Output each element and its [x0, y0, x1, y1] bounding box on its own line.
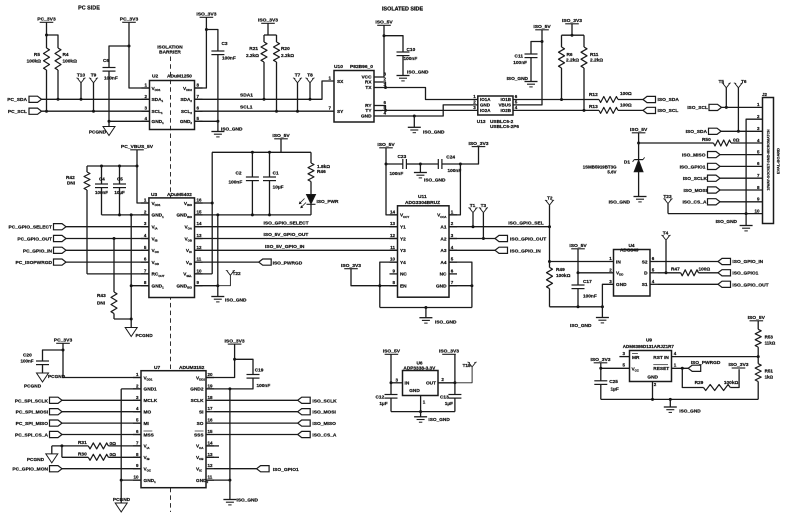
svg-text:ISO_GPIO1: ISO_GPIO1 [680, 164, 706, 170]
wire PC_SPI_CS_A wire [62, 434, 141, 436]
node T3 junction [482, 237, 485, 240]
wire U3 pin10 VSEL tie [195, 273, 213, 275]
svg-text:T8: T8 [307, 73, 313, 79]
capacitor C1 [263, 176, 276, 178]
svg-text:IO2B: IO2B [500, 108, 511, 113]
svg-text:PC_SPI_MOSI: PC_SPI_MOSI [16, 410, 49, 416]
svg-text:U3: U3 [151, 192, 158, 198]
wire bottom rail GND_ISO [195, 214, 312, 216]
U6 GND pin1 stem [420, 396, 422, 412]
U7 pins [133, 377, 141, 379]
node C1 rail junction [268, 151, 271, 154]
resistor R51 [757, 357, 759, 364]
svg-text:ADUM3152: ADUM3152 [179, 365, 205, 371]
wire C17 top lead [577, 273, 579, 285]
wire ISO_3V3 stem (U11) [460, 147, 478, 164]
svg-text:ADM6386D131ARJZ1R7: ADM6386D131ARJZ1R7 [623, 344, 675, 349]
svg-text:ISO_MOSI: ISO_MOSI [684, 188, 708, 194]
svg-text:ISO_GPIO1: ISO_GPIO1 [732, 271, 758, 277]
svg-text:U11: U11 [418, 194, 427, 200]
svg-text:MO: MO [144, 410, 152, 416]
node GND2 junction [228, 387, 231, 390]
wire A2 wire [449, 238, 495, 240]
resistor R21 [263, 35, 265, 42]
svg-text:ISO_3V3: ISO_3V3 [225, 338, 245, 344]
svg-text:PC_SDA: PC_SDA [7, 97, 27, 103]
node T4 junction [665, 271, 668, 274]
svg-text:1kΩ: 1kΩ [765, 375, 774, 380]
svg-text:GND: GND [409, 388, 420, 394]
op-amp U7 ADUM3152 box [141, 371, 206, 488]
svg-text:ISO_PWR: ISO_PWR [317, 199, 339, 205]
svg-text:C12: C12 [376, 395, 385, 401]
node C5/GND1 junction [118, 213, 121, 216]
svg-text:ISO_SCL: ISO_SCL [658, 108, 679, 114]
wire PC_SPI_MISO wire [62, 422, 141, 424]
node R53/R51 junction [757, 355, 760, 358]
wire RX tie [382, 82, 386, 88]
svg-text:GND: GND [436, 284, 447, 290]
svg-text:DNI: DNI [67, 181, 75, 187]
svg-text:ISO_GPIO1: ISO_GPIO1 [273, 467, 299, 473]
svg-text:GND: GND [616, 282, 627, 288]
U9 MR pin3 [619, 356, 629, 358]
wire ISO_MISO wire [214, 422, 298, 424]
wire ISO_MOSI wire [214, 411, 298, 413]
wire C11 top lead [531, 42, 542, 55]
svg-text:PC_GPIO_IN: PC_GPIO_IN [23, 248, 53, 254]
svg-text:SCL1: SCL1 [240, 105, 253, 111]
node U6 OUT junction [453, 381, 456, 384]
svg-text:ISO_GND: ISO_GND [570, 323, 592, 329]
node U4 gnd junction [601, 305, 604, 308]
wire IO1B to R12 [513, 99, 599, 101]
node T6 junction [737, 130, 740, 133]
svg-text:PC_GPIO_SELECT: PC_GPIO_SELECT [9, 225, 53, 231]
wire GND2 vertical [229, 389, 231, 480]
svg-text:U10: U10 [334, 64, 343, 70]
wire ISO_5V stem (U11) [386, 148, 398, 215]
svg-text:C11: C11 [515, 54, 524, 60]
ground PCGND (C6) [103, 127, 115, 136]
svg-text:A2: A2 [440, 236, 446, 242]
wire C19 bottom lead [206, 378, 253, 389]
svg-text:MI: MI [144, 421, 149, 427]
wire C12 bottom lead [390, 398, 392, 412]
svg-text:U2: U2 [152, 74, 159, 80]
ground ISO_GND (C11) [525, 81, 538, 83]
wire C25 top lead [600, 368, 602, 381]
wire ISO_5V stem (U4) [577, 249, 579, 273]
connector ISO_GPIO1 (U4) [718, 270, 731, 276]
svg-text:ISO_3V3: ISO_3V3 [590, 357, 610, 363]
wire ISO_3V3 stem (U6) [454, 354, 456, 383]
wire S2 wire [658, 261, 718, 263]
connector ISO_PWRGD (U9) [688, 365, 701, 371]
capacitor C5 [113, 183, 126, 185]
svg-text:16: 16 [208, 418, 214, 423]
wire pullup rail stem [267, 23, 269, 35]
svg-text:C23: C23 [398, 154, 407, 160]
node U11 gnd stem junction [424, 306, 427, 309]
connector PC_SCL [29, 108, 42, 114]
node pin8 corner [130, 284, 133, 287]
connector ISO_MOSI [298, 409, 311, 415]
svg-text:Y3: Y3 [400, 248, 406, 254]
svg-text:ISO_5V: ISO_5V [533, 24, 551, 30]
svg-text:10: 10 [197, 268, 203, 273]
svg-text:R42: R42 [66, 175, 75, 181]
wire R30 to pin8 [108, 456, 141, 458]
ground ISO_GND (U9) [664, 406, 677, 408]
capacitor C4 [95, 183, 108, 185]
node C6/GND1 junction [108, 120, 111, 123]
regulator U6 ADP3338 box [403, 371, 439, 396]
wire SEL to U4 IN [550, 261, 614, 263]
node U9 gnd junction2 [669, 398, 672, 401]
svg-text:13: 13 [197, 233, 203, 238]
wire U7 pin10 GND1 [121, 479, 141, 481]
svg-text:PC_3V3: PC_3V3 [37, 17, 56, 23]
node R4/SDA junction [57, 98, 60, 101]
wire PC_GPIO_IN wire [66, 249, 149, 251]
svg-text:GND1: GND1 [144, 387, 158, 393]
node gnd tie junction [216, 213, 219, 216]
svg-text:ISO_GND: ISO_GND [428, 417, 450, 423]
svg-text:11: 11 [390, 245, 395, 250]
wire PC_GPIO_SELECT wire [66, 226, 149, 228]
wire top rail [212, 151, 311, 153]
svg-text:100kΩ: 100kΩ [27, 59, 42, 65]
svg-text:ISO_GND: ISO_GND [679, 409, 701, 415]
svg-text:ISO_5V: ISO_5V [748, 315, 766, 321]
wire VCCA wire [449, 164, 460, 215]
svg-text:MSS: MSS [144, 432, 154, 438]
wire R4 top jog [47, 35, 59, 48]
node C3 branch junction [205, 28, 208, 31]
svg-text:100Ω: 100Ω [620, 91, 632, 97]
svg-text:ISO_GND: ISO_GND [435, 320, 457, 326]
wire U9 bottom rail [601, 398, 758, 400]
wire SCL1 U2 pin6 to U10 SY [195, 110, 335, 112]
wire C17 bottom lead [577, 289, 579, 307]
wire ISO_5V stem (D1) [638, 133, 640, 143]
svg-text:NC: NC [400, 272, 407, 278]
svg-text:D: D [644, 271, 648, 277]
node C20 junction [62, 349, 65, 352]
svg-text:100nF: 100nF [448, 168, 462, 174]
svg-text:SCLK: SCLK [191, 398, 205, 404]
svg-text:20: 20 [208, 372, 214, 377]
wire C5 bottom lead [119, 188, 121, 215]
svg-text:ISO_3V3: ISO_3V3 [728, 362, 748, 368]
svg-text:ISO_CS_A: ISO_CS_A [682, 200, 707, 206]
node C10 branch junction [383, 34, 386, 37]
node C23/C24 gnd junction [419, 163, 422, 166]
svg-text:ISO_GND: ISO_GND [225, 298, 247, 304]
node T2 junction [548, 225, 551, 228]
node R31 gnd junction [60, 444, 63, 447]
wire U7 pin2 GND1 [121, 388, 141, 390]
connector ISO_GPIO_IN (U4) [718, 258, 731, 264]
svg-text:C1: C1 [273, 171, 279, 177]
svg-text:U6: U6 [417, 361, 423, 367]
wire A3 wire [449, 249, 495, 251]
resistor R49 [549, 262, 551, 268]
wire ISO_SCLK to J2 [720, 177, 763, 179]
wire TY to U13 IO2A [382, 109, 478, 111]
ground ISO_GND (U10/U13) [408, 126, 421, 128]
wire ISO_GPIO_SELECT wire [195, 226, 398, 228]
svg-text:S2: S2 [642, 259, 648, 265]
node GND pin7 corner [470, 284, 473, 287]
svg-text:ISO_GPIO_IN: ISO_GPIO_IN [732, 259, 763, 265]
resistor R5 [44, 48, 50, 70]
svg-text:ISO_MOSI: ISO_MOSI [312, 410, 336, 416]
svg-text:Y2: Y2 [400, 236, 406, 242]
ground PCGND (R31/R30) [51, 446, 53, 454]
connector ISO_GPIO1 (U7) [257, 466, 270, 472]
wire SEL down [549, 227, 551, 262]
svg-text:13: 13 [208, 452, 214, 457]
svg-text:C17: C17 [583, 279, 592, 285]
svg-text:EVAL-BOARD: EVAL-BOARD [776, 148, 781, 174]
svg-text:PCGND: PCGND [113, 497, 131, 503]
wire R29 left [682, 368, 703, 387]
wire C5 top lead [119, 166, 121, 184]
svg-text:ISO_GND: ISO_GND [424, 178, 446, 184]
svg-text:16: 16 [197, 198, 203, 203]
svg-text:ISO_3V3: ISO_3V3 [562, 18, 582, 24]
svg-text:T7: T7 [295, 73, 301, 79]
op-amp U10 P82B96 box [334, 71, 374, 123]
svg-text:100kΩ: 100kΩ [556, 273, 571, 279]
resistor R20 [276, 35, 278, 42]
svg-text:1.8kΩ: 1.8kΩ [317, 164, 330, 170]
svg-text:ISO_SDA: ISO_SDA [658, 97, 680, 103]
wire ISO_MOSI to J2 [720, 189, 763, 191]
svg-text:R6: R6 [567, 52, 573, 58]
resistor R31 [88, 443, 108, 449]
svg-text:2.2kΩ: 2.2kΩ [246, 53, 259, 59]
node pin9 junction [216, 284, 219, 287]
svg-text:12: 12 [390, 233, 396, 238]
svg-text:RX: RX [365, 80, 372, 86]
U7 VOA stub [206, 445, 219, 447]
connector ISO_SDA (left) [643, 96, 656, 102]
wire R47 to tag [699, 272, 719, 274]
svg-text:C2: C2 [236, 171, 242, 177]
svg-text:PCGND: PCGND [27, 457, 45, 463]
svg-text:11: 11 [197, 257, 202, 262]
svg-text:R11: R11 [590, 52, 599, 58]
wire U4 gnd down [601, 307, 603, 318]
node GND1 vertical junction [130, 213, 133, 216]
svg-text:Y4: Y4 [400, 260, 406, 266]
svg-text:ADG849: ADG849 [620, 247, 639, 253]
wire R31 wires [52, 445, 89, 447]
svg-text:100nF: 100nF [583, 293, 597, 299]
wire PC_3V3 stem to U7 pin1 [63, 343, 141, 377]
svg-text:SSS: SSS [194, 432, 204, 438]
wire C2 bottom lead [251, 181, 253, 215]
node C5 top junction [118, 165, 121, 168]
svg-text:R53: R53 [765, 335, 774, 340]
svg-text:C24: C24 [446, 155, 455, 161]
svg-text:10WAY-SOCKET-SMD-MICROMATCH: 10WAY-SOCKET-SMD-MICROMATCH [767, 129, 771, 191]
svg-text:100kΩ: 100kΩ [724, 380, 739, 386]
svg-text:A1: A1 [440, 225, 446, 231]
supervisor U9 box [630, 351, 672, 382]
svg-text:14: 14 [197, 221, 203, 226]
svg-text:R50: R50 [702, 137, 711, 143]
svg-text:GND: GND [480, 103, 491, 108]
wire ISO_5V stem to VBUS [513, 30, 542, 105]
wire C10 bottom lead [402, 56, 404, 76]
svg-text:RST IN: RST IN [653, 355, 669, 361]
svg-text:ADG3304BRUZ: ADG3304BRUZ [405, 200, 440, 206]
svg-text:ISO_3V3: ISO_3V3 [468, 141, 488, 147]
capacitor C11 [525, 53, 538, 55]
node R49 junction [548, 260, 551, 263]
connector ISO_SCL (left) [643, 107, 656, 113]
wire R50 wire [639, 142, 714, 144]
svg-text:ISO_5V_GPIO_OUT: ISO_5V_GPIO_OUT [264, 232, 309, 238]
svg-text:PC_GPIO_OUT: PC_GPIO_OUT [17, 237, 52, 243]
wire ISO_5V stem (U6) [390, 354, 392, 383]
isolation barrier dashed line [170, 57, 172, 513]
svg-text:100nF: 100nF [257, 383, 271, 389]
resistor R50 [714, 140, 732, 146]
svg-text:2.2kΩ: 2.2kΩ [590, 58, 603, 64]
capacitor C23 [402, 159, 404, 169]
svg-text:T9: T9 [91, 73, 97, 79]
LED ISO_PWR [307, 195, 316, 204]
ground ISO_GND (U11) [419, 317, 432, 319]
wire C4 bottom lead [101, 188, 103, 215]
wire U9 gnd stem [669, 399, 671, 407]
node T5 junction [725, 106, 728, 109]
svg-text:1µF: 1µF [445, 401, 453, 407]
svg-text:ISO_5V: ISO_5V [272, 133, 290, 139]
svg-text:A3: A3 [440, 248, 446, 254]
svg-text:R46: R46 [317, 169, 326, 175]
svg-text:ISO_GND: ISO_GND [716, 219, 738, 225]
svg-text:100Ω: 100Ω [699, 266, 711, 272]
svg-text:100nF: 100nF [390, 171, 404, 177]
svg-text:R29: R29 [695, 380, 704, 386]
capacitor C17 [572, 284, 585, 286]
capacitor C25 [594, 380, 607, 382]
wire U6 gnd stem [420, 412, 422, 417]
wire PC_SCL to U2 pin3 [42, 110, 150, 112]
svg-text:USBLC6-2P6: USBLC6-2P6 [490, 124, 519, 130]
node C6 branch junction [128, 45, 131, 48]
node R11 junction [583, 109, 586, 112]
wire ISO_SDA to J2 pin3 [721, 130, 763, 132]
svg-text:17: 17 [208, 406, 214, 411]
wire C20 bottom lead [42, 365, 44, 373]
node U6 gnd junction [419, 410, 422, 413]
ground ISO_GND (J2) [740, 225, 753, 227]
node C4 top junction [100, 165, 103, 168]
svg-text:10µF: 10µF [273, 185, 284, 191]
svg-text:IO2A: IO2A [480, 108, 491, 113]
node C1 bottom junction [268, 213, 271, 216]
svg-text:R13: R13 [589, 104, 598, 110]
wire C23 right lead [406, 163, 420, 165]
wire ISO_MISO to J2 [720, 154, 763, 156]
svg-text:ISO_SCLK: ISO_SCLK [312, 398, 337, 404]
svg-text:100nF: 100nF [229, 180, 243, 186]
wire PC_GPIO_MON wire [62, 468, 141, 470]
wire R43 bottom [114, 318, 131, 320]
resistor R6 [561, 35, 563, 47]
svg-text:ADuM5402: ADuM5402 [167, 192, 192, 198]
svg-text:T22: T22 [233, 271, 242, 277]
ground PCGND (U3) [125, 328, 137, 337]
op-amp U2 ADuM1250 box [150, 81, 195, 130]
svg-text:ISO_5V: ISO_5V [375, 20, 393, 26]
ground ISO_GND (U3) [211, 296, 224, 298]
wire RESET wire [672, 367, 689, 369]
wire R12 to ISO_SDA tag [618, 99, 643, 101]
wire J2 gnd stem [745, 214, 747, 226]
wire U7 pin11 GND2 [206, 479, 230, 481]
wire R6/R11 top wire [562, 34, 585, 36]
wire IN wire [391, 382, 403, 384]
svg-text:MR: MR [632, 355, 640, 361]
svg-text:19: 19 [208, 383, 214, 388]
svg-text:PCGND: PCGND [89, 130, 107, 136]
resistor R4 [55, 48, 61, 70]
svg-text:PC_3V3: PC_3V3 [120, 17, 139, 23]
wire U2 pin4 GND1 [109, 120, 150, 122]
svg-text:10: 10 [390, 257, 396, 262]
svg-text:R49: R49 [556, 267, 565, 273]
connector ISO_PWRGD (U3) [259, 259, 272, 265]
node C2 rail junction [251, 151, 254, 154]
node R20/SCL1 junction [275, 110, 278, 113]
wire gnd vertical [217, 215, 219, 297]
svg-text:ISO_SCLK: ISO_SCLK [683, 176, 708, 182]
wire ISO_GND stem (U7) [229, 480, 231, 499]
wire U2 pin5 GND2 [195, 121, 218, 131]
capacitor C2 [246, 176, 259, 178]
connector J2 box [763, 98, 774, 224]
svg-text:ISO_SCL: ISO_SCL [687, 105, 708, 111]
svg-text:ISO_5V: ISO_5V [630, 127, 648, 133]
node PCGND junction (U3) [130, 318, 133, 321]
svg-text:ISO_GND: ISO_GND [221, 127, 243, 133]
svg-text:100kΩ: 100kΩ [63, 59, 78, 65]
node R6/R11 top junction [571, 34, 574, 37]
svg-text:18: 18 [208, 395, 214, 400]
svg-text:10: 10 [754, 208, 760, 213]
wire D wire [658, 272, 681, 274]
svg-text:11kΩ: 11kΩ [765, 341, 776, 346]
svg-text:C13: C13 [440, 395, 449, 401]
resistor R13 [599, 107, 618, 113]
svg-text:C10: C10 [407, 47, 416, 53]
svg-text:ISO_5V: ISO_5V [377, 142, 395, 148]
svg-text:11: 11 [208, 475, 213, 480]
wire ISO_CS_A to J2 [720, 201, 763, 203]
svg-text:C5: C5 [117, 176, 123, 181]
svg-text:ISO_3V3: ISO_3V3 [196, 12, 216, 18]
diode D1 zener [638, 143, 640, 160]
wire gnd stem (C23) [419, 164, 421, 173]
